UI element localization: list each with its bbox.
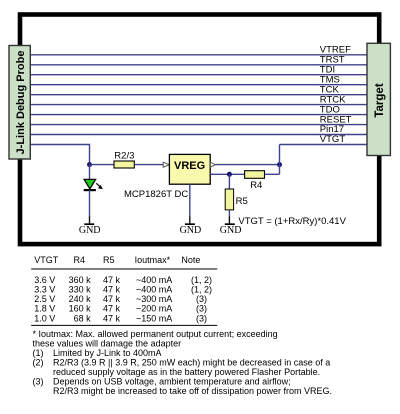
svg-text:R5: R5: [236, 196, 248, 207]
node junction at LED top: [87, 162, 92, 167]
VREG input pin arrow: [163, 162, 169, 167]
svg-text:* Ioutmax: Max. allowed perma: * Ioutmax: Max. allowed permanent output…: [33, 329, 278, 339]
regulator U1 VREG: [169, 154, 210, 184]
LED D1: [84, 179, 95, 189]
svg-text:~400 mA: ~400 mA: [136, 275, 172, 285]
svg-text:Target: Target: [374, 83, 386, 117]
svg-text:J-Link Debug Probe: J-Link Debug Probe: [15, 51, 27, 155]
wire R4 to riser: [265, 173, 280, 175]
wire VREG output to riser: [215, 164, 279, 166]
svg-text:3.6 V: 3.6 V: [34, 275, 55, 285]
table bottom rule: [31, 324, 217, 326]
ground (VREG): [185, 223, 195, 225]
svg-text:2.5 V: 2.5 V: [34, 294, 55, 304]
svg-text:R2/R3 might be increased to ta: R2/R3 might be increased to take off of …: [53, 386, 332, 396]
svg-text:(1, 2): (1, 2): [191, 275, 212, 285]
wire TRST: [31, 64, 367, 66]
resistor R4: [245, 171, 265, 179]
wire TMS: [31, 84, 367, 86]
svg-text:reduced supply voltage as in t: reduced supply voltage as in the battery…: [53, 367, 320, 377]
svg-text:160 k: 160 k: [69, 304, 92, 314]
svg-text:47 k: 47 k: [103, 294, 121, 304]
ground (LED): [84, 223, 94, 225]
wire LED to ground: [89, 190, 91, 217]
svg-text:R4: R4: [250, 180, 262, 191]
svg-text:GND: GND: [79, 225, 101, 236]
LED arrow: [96, 183, 100, 187]
wire VTGT left segment: [31, 145, 90, 165]
wire TDO: [31, 114, 367, 116]
wire TCK: [31, 94, 367, 96]
svg-text:these values will damage the a: these values will damage the adapter: [33, 338, 182, 348]
wire VREG to ground: [189, 184, 191, 217]
svg-text:(3): (3): [196, 294, 207, 304]
svg-text:R2/3: R2/3: [114, 151, 134, 162]
svg-text:(1, 2): (1, 2): [191, 285, 212, 295]
svg-text:240 k: 240 k: [69, 294, 92, 304]
svg-text:MCP1826T DC: MCP1826T DC: [124, 189, 188, 200]
wire Pin17: [31, 134, 367, 136]
wire riser to VTGT: [279, 145, 281, 175]
svg-text:(3): (3): [196, 304, 207, 314]
svg-text:VTGT = (1+Rx/Ry)*0.41V: VTGT = (1+Rx/Ry)*0.41V: [238, 216, 346, 227]
svg-text:47 k: 47 k: [103, 275, 121, 285]
svg-text:Limited by J-Link to 400mA: Limited by J-Link to 400mA: [53, 348, 162, 358]
svg-text:1.0 V: 1.0 V: [34, 313, 55, 323]
svg-text:GND: GND: [180, 225, 202, 236]
svg-text:(3): (3): [196, 313, 207, 323]
svg-text:VREG: VREG: [174, 160, 205, 172]
svg-text:~400 mA: ~400 mA: [136, 285, 172, 295]
resistor R2/3: [114, 161, 134, 168]
svg-text:R4: R4: [74, 255, 86, 265]
resistor R5: [225, 189, 233, 210]
wire RESET: [31, 124, 367, 126]
wire junction to LED: [89, 165, 91, 180]
svg-text:1.8 V: 1.8 V: [34, 304, 55, 314]
svg-text:VTGT: VTGT: [34, 255, 59, 265]
svg-text:Ioutmax*: Ioutmax*: [135, 255, 171, 265]
Target connector: [367, 43, 390, 155]
J-Link Debug Probe connector: [9, 46, 30, 160]
svg-text:(3): (3): [33, 376, 44, 386]
svg-text:47 k: 47 k: [103, 285, 121, 295]
table header rule: [31, 268, 217, 270]
svg-text:~300 mA: ~300 mA: [136, 294, 172, 304]
svg-text:330 k: 330 k: [69, 285, 92, 295]
svg-text:47 k: 47 k: [103, 304, 121, 314]
ground (R5): [225, 223, 235, 225]
wire R2/3 to VREG input: [134, 164, 164, 166]
svg-text:~200 mA: ~200 mA: [136, 304, 172, 314]
svg-text:68 k: 68 k: [74, 313, 92, 323]
svg-text:~150 mA: ~150 mA: [136, 313, 172, 323]
node VREG output junction: [277, 162, 282, 167]
node ADJ junction: [227, 172, 232, 177]
svg-text:(2): (2): [33, 357, 44, 367]
VREG output pin arrow: [210, 162, 215, 167]
svg-text:Depends on USB voltage, ambien: Depends on USB voltage, ambient temperat…: [53, 376, 291, 386]
svg-text:VTGT: VTGT: [320, 134, 346, 145]
svg-text:360 k: 360 k: [69, 275, 92, 285]
wire R5 to ground: [228, 210, 230, 217]
schematic boundary: [20, 15, 379, 245]
svg-text:3.3 V: 3.3 V: [34, 285, 55, 295]
wire VREG ADJ to R4: [210, 173, 244, 175]
svg-text:R2/R3 (3.9 R || 3.9 R, 250 mW: R2/R3 (3.9 R || 3.9 R, 250 mW each) migh…: [53, 357, 330, 367]
wire VTGT right segment: [280, 144, 368, 146]
wire ADJ node down to R5: [228, 174, 230, 189]
svg-text:R5: R5: [103, 255, 115, 265]
svg-text:Note: Note: [181, 255, 200, 265]
svg-text:(1): (1): [33, 348, 44, 358]
wire junction to R2/3: [90, 164, 114, 166]
wire TDI: [31, 74, 367, 76]
wire RTCK: [31, 104, 367, 106]
svg-text:47 k: 47 k: [103, 313, 121, 323]
wire VTREF: [31, 54, 367, 56]
